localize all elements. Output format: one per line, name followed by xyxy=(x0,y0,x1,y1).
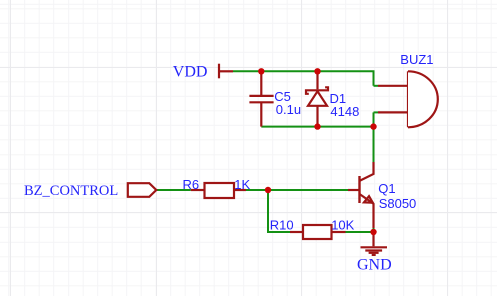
svg-text:0.1u: 0.1u xyxy=(276,102,301,117)
svg-text:1K: 1K xyxy=(234,177,250,192)
svg-text:R6: R6 xyxy=(183,177,200,192)
svg-text:Q1: Q1 xyxy=(378,181,395,196)
svg-text:10K: 10K xyxy=(331,218,354,233)
svg-text:4148: 4148 xyxy=(330,104,359,119)
svg-text:VDD: VDD xyxy=(173,63,208,80)
svg-text:GND: GND xyxy=(357,257,392,274)
svg-text:R10: R10 xyxy=(270,218,294,233)
svg-text:S8050: S8050 xyxy=(379,196,417,211)
svg-text:BUZ1: BUZ1 xyxy=(400,52,433,67)
svg-text:BZ_CONTROL: BZ_CONTROL xyxy=(24,183,118,199)
